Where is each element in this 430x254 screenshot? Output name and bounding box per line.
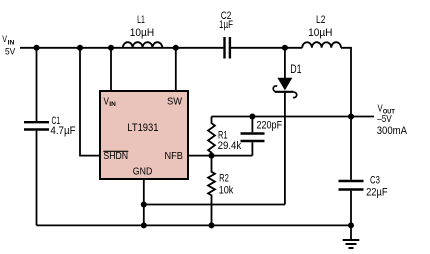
IC U1 LT1931 — [100, 91, 188, 179]
svg-text:10µH: 10µH — [308, 27, 332, 39]
label L2 10uH — [308, 14, 332, 39]
label R1 29.4k — [218, 129, 242, 152]
junction node A (C2/D1/L2) — [282, 45, 288, 51]
wire feedback VOUT to R1 — [212, 116, 352, 118]
resistor R1 — [208, 117, 215, 156]
junction dot VOUT — [348, 114, 354, 120]
svg-text:300mA: 300mA — [377, 125, 408, 137]
wire L2 right to VOUT column — [341, 48, 351, 117]
label C1 4.7uF — [50, 115, 75, 137]
junction dot R2 bottom — [209, 222, 215, 228]
capacitor C3 — [339, 181, 364, 225]
svg-text:GND: GND — [133, 166, 153, 177]
junction dot C1/VIN — [34, 45, 40, 51]
wire lower ground rail — [37, 224, 352, 226]
label C3 22uF — [366, 175, 388, 199]
wire SW pin — [175, 48, 177, 91]
svg-text:10k: 10k — [219, 185, 234, 197]
label L1 10uH — [130, 14, 154, 39]
junction dot ground node — [348, 222, 354, 228]
svg-text:22µF: 22µF — [366, 187, 388, 199]
label VIN 5V — [2, 34, 16, 57]
svg-text:29.4k: 29.4k — [218, 140, 242, 152]
svg-text:R2: R2 — [219, 173, 229, 185]
svg-text:IN: IN — [109, 101, 116, 108]
capacitor C1 — [24, 48, 49, 226]
node VIN (input rail wire) — [20, 47, 302, 49]
junction dot SW/L1 right — [173, 45, 179, 51]
label R2 10k — [219, 173, 234, 197]
svg-text:220pF: 220pF — [257, 120, 283, 132]
resistor R2 — [208, 156, 215, 226]
svg-text:NFB: NFB — [165, 151, 184, 162]
junction dot GND pin lower rail — [141, 222, 147, 228]
junction dot GND pin upper rail — [141, 202, 147, 208]
svg-text:–5V: –5V — [377, 113, 392, 125]
wire upper ground rail (GND pin to D1 cathode) — [144, 204, 285, 206]
label C2 1uF — [219, 10, 233, 31]
label VOUT -5V 300mA — [377, 103, 408, 137]
junction dot SHDN/VIN — [77, 45, 83, 51]
svg-text:10µH: 10µH — [130, 27, 154, 39]
diode D1 (Schottky) — [273, 48, 296, 205]
svg-text:SW: SW — [167, 97, 183, 108]
svg-text:L2: L2 — [316, 14, 325, 26]
svg-text:1µF: 1µF — [219, 19, 233, 31]
junction dot L1 left — [108, 45, 114, 51]
capacitor C2 — [225, 37, 230, 59]
capacitor 220pF — [241, 117, 265, 156]
wire VIN pin — [110, 48, 112, 91]
svg-text:4.7µF: 4.7µF — [50, 125, 75, 137]
junction dot 220pF top — [249, 114, 255, 120]
svg-text:D1: D1 — [290, 62, 302, 76]
inductor L2 — [302, 42, 341, 48]
svg-text:C3: C3 — [370, 175, 380, 187]
wire GND pin — [143, 179, 145, 225]
svg-text:L1: L1 — [137, 14, 145, 26]
wire SHDN pin — [80, 48, 100, 156]
svg-text:LT1931: LT1931 — [127, 122, 158, 134]
svg-text:5V: 5V — [5, 46, 16, 57]
ground — [343, 225, 360, 248]
inductor L1 — [123, 42, 163, 48]
wire VOUT stub — [351, 116, 374, 118]
svg-text:SHDN: SHDN — [103, 151, 128, 162]
svg-text:V: V — [2, 34, 7, 44]
junction dot R1/R2/NFB — [209, 153, 215, 159]
wire VOUT column to C3 — [350, 117, 352, 180]
wire NFB pin — [188, 155, 252, 157]
